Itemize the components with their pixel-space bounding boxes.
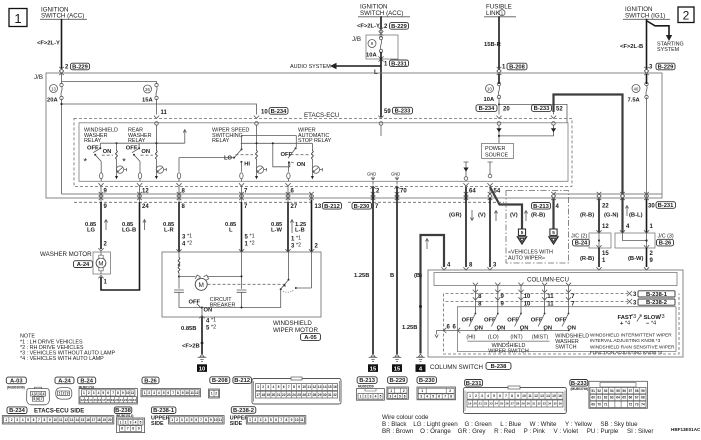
svg-text:29: 29 [318,393,322,397]
svg-text:<F>2L-Y: <F>2L-Y [357,24,380,30]
wire 0.85 L-R pin 8 [178,202,180,252]
pin row 2 labels [104,202,676,210]
svg-text:B-213: B-213 [359,378,376,384]
svg-text:2: 2 [35,392,37,396]
svg-text:*3: *3 [631,314,636,320]
svg-text:B-238-1: B-238-1 [153,408,175,414]
svg-text:AUDIO SYSTEM: AUDIO SYSTEM [290,64,331,70]
vehicles with auto wiper dash-dot box [506,191,569,264]
svg-text:10: 10 [524,294,531,300]
svg-text:66: 66 [629,396,633,400]
connector B-238 [114,407,144,433]
wire from ignition ACC middle [380,16,382,29]
svg-text:7: 7 [112,391,114,395]
fuse 40 [628,74,649,198]
svg-text:27: 27 [291,204,298,210]
svg-text:1: 1 [245,242,249,248]
svg-text:(B-W): (B-W) [628,256,644,262]
svg-text:11: 11 [547,301,554,307]
svg-text:ETACS-ECU: ETACS-ECU [304,112,339,119]
ETACS-ECU dashed box [74,112,572,186]
svg-text:19: 19 [111,398,115,402]
svg-text:L-B: L-B [295,228,305,234]
svg-text:20: 20 [503,106,510,112]
svg-text:9: 9 [298,385,300,389]
svg-text:B-234: B-234 [479,106,496,112]
svg-text:2: 2 [148,391,150,395]
svg-text:11: 11 [219,418,223,422]
svg-text:15: 15 [81,418,85,422]
svg-text:5: 5 [102,391,104,395]
svg-text:4: 4 [22,418,24,422]
svg-text:5: 5 [432,395,434,399]
page ref box 2 [678,7,694,23]
svg-text:24: 24 [292,393,296,397]
svg-text:16: 16 [558,394,562,398]
svg-text:Wire colour code: Wire colour code [382,414,429,421]
J/C(2) out pin 15 R-B [598,248,600,267]
ground 15 [369,354,378,361]
svg-text:5: 5 [493,394,495,398]
svg-text:HBF13E01AC: HBF13E01AC [671,427,701,432]
svg-text:7: 7 [280,418,282,422]
svg-text:B-233: B-233 [534,106,551,112]
svg-text:10: 10 [295,418,299,422]
connector 3 B-229 [649,63,675,70]
svg-text:WINDSHIELD: WINDSHIELD [273,320,312,327]
ETACS output 54 [488,162,493,178]
svg-text:5: 5 [278,385,280,389]
svg-text:2: 2 [104,242,108,248]
svg-text:70: 70 [400,189,407,195]
svg-text:15B-R: 15B-R [484,42,502,48]
svg-text:OFF: OFF [462,317,474,323]
svg-text:16: 16 [86,418,90,422]
svg-text:(R-B): (R-B) [580,256,594,262]
svg-text:6: 6 [107,391,109,395]
svg-text:B-229: B-229 [391,24,408,30]
svg-text:4: 4 [394,394,396,398]
inner bus line A [62,194,662,202]
svg-text:10: 10 [302,385,306,389]
svg-text:19: 19 [468,402,472,406]
svg-text:SWITCH (IG1): SWITCH (IG1) [625,13,665,20]
wire 1.25 L-B pin 13 [311,200,313,252]
wire V pin 54 to column ecu 3 [489,198,491,267]
svg-text:6: 6 [447,325,451,331]
svg-text:2: 2 [403,389,405,393]
J/C(3) out pin 2 B-W [646,248,648,267]
svg-text:9: 9 [291,418,293,422]
svg-text:9: 9 [104,204,108,210]
motor coil [178,258,180,266]
svg-text:1: 1 [104,280,108,286]
svg-text:53: 53 [604,389,608,393]
svg-text:B-213: B-213 [533,204,550,210]
wiper motor entries [176,249,181,252]
svg-text:12: 12 [64,418,68,422]
svg-text:3: 3 [39,392,41,396]
wire GR pin 64 to column ecu 8 [465,187,467,267]
connector B-234 20 [476,105,510,113]
svg-text:15: 15 [552,394,556,398]
svg-text:A-24: A-24 [77,262,90,268]
svg-text:12: 12 [80,398,84,402]
svg-text:1: 1 [360,395,362,399]
svg-text:13: 13 [540,394,544,398]
svg-text:A-24: A-24 [58,378,71,384]
svg-text:15A: 15A [142,98,153,104]
svg-text:4: 4 [182,242,186,248]
circuit breaker [189,297,236,317]
svg-text:B-208: B-208 [509,65,526,71]
svg-text:20: 20 [108,418,112,422]
svg-text:14: 14 [323,385,327,389]
svg-text:26: 26 [145,87,150,92]
svg-text:8: 8 [177,391,179,395]
svg-text:3: 3 [493,263,497,269]
svg-text:10: 10 [522,394,526,398]
svg-text:13: 13 [315,204,322,210]
wire B from column ecu pin4 to ground 4 [421,235,445,354]
svg-text:23: 23 [489,402,493,406]
svg-text:3: 3 [260,418,262,422]
svg-text:23: 23 [287,393,291,397]
svg-text:3: 3 [481,394,483,398]
ETACS internal grounds GND [367,172,376,185]
connector B-229 [387,377,409,400]
svg-text:10: 10 [261,109,268,115]
svg-text:9: 9 [138,427,140,431]
svg-text:SIDE: SIDE [230,421,243,427]
svg-text:16: 16 [98,398,102,402]
svg-text:15: 15 [370,366,377,372]
wiper switch position bracket [467,341,549,344]
svg-text:7: 7 [444,395,446,399]
wiper switch solid box [458,307,677,352]
svg-text:11: 11 [161,110,168,116]
connector 2 B-229 middle [384,23,409,30]
svg-text:B-229: B-229 [390,378,407,384]
svg-text:*2: *2 [296,243,301,249]
svg-text:HI: HI [244,162,250,168]
svg-text:10: 10 [487,86,492,91]
wire fuse 26 down pin 11 [156,99,158,115]
svg-text:(V): (V) [478,213,486,219]
svg-text:32: 32 [333,393,337,397]
svg-text:26: 26 [302,393,306,397]
svg-text:*1: *1 [211,318,216,324]
connector B-234 [2,407,114,424]
svg-text:1: 1 [291,237,295,243]
connector A-24 [55,377,74,399]
svg-text:*2: *2 [211,325,216,331]
svg-text:OFF: OFF [531,317,543,323]
svg-text:B-231: B-231 [466,381,483,387]
svg-text:35: 35 [553,402,557,406]
ignition switch (ACC) header middle [358,4,410,18]
svg-text:18: 18 [106,398,110,402]
svg-text:1: 1 [249,418,251,422]
svg-text:10: 10 [54,418,58,422]
svg-text:3: 3 [93,391,95,395]
svg-text:WINDSHIELD RAIN SENSITIVE WIPE: WINDSHIELD RAIN SENSITIVE WIPER [590,344,675,349]
svg-text:12: 12 [142,189,149,195]
svg-text:J/C (2): J/C (2) [571,234,587,240]
fusible link header [484,4,516,18]
connector A-03 [6,377,49,405]
svg-text:31: 31 [328,393,332,397]
svg-text:13: 13 [85,398,89,402]
column switch contact washer [555,286,576,332]
svg-text:3: 3 [267,385,269,389]
svg-text:17: 17 [256,393,260,397]
svg-text:55: 55 [616,389,620,393]
svg-text:4: 4 [206,319,210,325]
thick feed to pin 52: from J/C(3) [554,95,623,195]
ignition switch (IG1) header [623,6,670,20]
svg-text:1.25B: 1.25B [402,325,417,331]
svg-text:6: 6 [167,391,169,395]
svg-text:(MIST): (MIST) [532,334,549,340]
washer motor [40,251,111,274]
svg-text:*4 : VEHICLES WITH AUTO LAMP: *4 : VEHICLES WITH AUTO LAMP [20,356,104,362]
svg-text:57: 57 [629,389,633,393]
svg-text:(INT): (INT) [510,334,522,340]
svg-text:B: B [390,273,394,279]
windshield washer relay [84,128,127,182]
svg-text:25: 25 [500,402,504,406]
svg-text:ON: ON [297,162,306,168]
svg-text:SOURCE: SOURCE [485,152,508,158]
switch dashed box [444,294,680,355]
svg-text:4: 4 [98,391,100,395]
svg-text:B-229: B-229 [658,65,675,71]
svg-text:6: 6 [121,427,123,431]
connector B-233 [570,380,648,409]
svg-text:11: 11 [547,294,554,300]
svg-text:12: 12 [195,391,199,395]
svg-text:POWER: POWER [485,146,505,152]
svg-text:2: 2 [65,65,69,71]
svg-text:14: 14 [546,394,550,398]
connector B-212 [233,377,341,404]
interval adjusting knob [618,314,665,327]
wire 30 B-231 to J/C(3) [646,199,648,233]
starting system branch [647,21,684,53]
svg-text:GND: GND [367,172,376,177]
svg-text:14: 14 [89,398,93,402]
svg-text:14: 14 [75,418,79,422]
svg-text:*: * [122,157,126,167]
svg-text:9: 9 [49,418,51,422]
svg-text:25: 25 [297,393,301,397]
svg-text:WINDSHIELD INTERMITTENT WIPER: WINDSHIELD INTERMITTENT WIPER [590,332,672,337]
svg-text:(B-L): (B-L) [629,213,643,219]
rear washer relay [122,128,166,182]
connector 1 B-208 [502,63,527,70]
svg-text:24: 24 [132,398,136,402]
svg-text:22: 22 [124,398,128,402]
svg-text:1: 1 [650,224,654,230]
svg-text:*4: *4 [651,321,656,327]
svg-text:SWITCH (ACC): SWITCH (ACC) [360,10,403,17]
svg-text:17: 17 [102,398,106,402]
svg-text:3: 3 [633,292,637,298]
svg-text:15: 15 [93,398,97,402]
svg-text:−: − [646,321,650,327]
svg-text:2: 2 [215,392,217,396]
svg-text:M: M [198,282,203,289]
wiper speed switching relay [177,128,312,182]
svg-text:6: 6 [438,395,440,399]
svg-text:3: 3 [649,65,653,71]
svg-text:1: 1 [469,394,471,398]
svg-text:3: 3 [390,394,392,398]
svg-text:10: 10 [126,391,130,395]
connector 2 B-229 [65,63,90,70]
svg-text:4: 4 [626,224,630,230]
svg-text:BR : Brown O : Orange GR: BR : Brown O : Orange GR : Grey R : Red … [382,428,653,435]
svg-text:1: 1 [211,392,213,396]
svg-text:67: 67 [635,396,639,400]
svg-text:7: 7 [505,394,507,398]
svg-text:L-W: L-W [271,228,282,234]
svg-text:1: 1 [14,11,21,26]
svg-text:2: 2 [125,420,127,424]
svg-text:ON: ON [141,149,150,155]
svg-text:60: 60 [591,396,595,400]
svg-text:WIPER SWITCH: WIPER SWITCH [488,348,529,354]
svg-text:8: 8 [478,294,482,300]
svg-text:7: 7 [172,391,174,395]
svg-text:59: 59 [641,389,645,393]
svg-text:(MU803749): (MU803749) [571,387,589,391]
audio system arrow [290,63,381,76]
svg-text:2: 2 [262,385,264,389]
svg-text:ETACS-ECU SIDE: ETACS-ECU SIDE [34,409,84,415]
svg-text:LG: LG [87,228,96,234]
svg-text:7: 7 [571,294,575,300]
svg-text:*1: *1 [296,236,301,242]
svg-text:26: 26 [505,402,509,406]
wire below B-231 with audio branch [380,52,382,117]
connector B-213 [356,377,384,400]
svg-text:*3: *3 [660,314,665,320]
svg-text:1: 1 [602,258,606,264]
svg-text:3: 3 [370,395,372,399]
svg-text:LINK: LINK [486,10,501,17]
ground 10 [198,354,207,361]
svg-text:7: 7 [288,385,290,389]
svg-text:5: 5 [163,391,165,395]
svg-text:34: 34 [548,402,552,406]
wire 0.85 L-W pin 27 [287,202,289,252]
svg-text:5: 5 [33,397,35,401]
svg-text:INTERVAL ADJUSTING KNOB *3: INTERVAL ADJUSTING KNOB *3 [590,338,661,343]
svg-text:63: 63 [610,396,614,400]
page ref box 1 [9,9,27,27]
svg-text:6: 6 [404,394,406,398]
fuse 9 [366,30,383,59]
svg-text:B-231: B-231 [658,203,675,209]
svg-text:19: 19 [103,418,107,422]
column switch contact (MIST) [531,286,555,341]
fuse 13 output bus to pin 10 [62,99,257,194]
svg-text:61: 61 [598,396,602,400]
svg-text:59: 59 [384,109,391,115]
wire 1.25B pin2 to ground 15 [372,187,374,354]
svg-text:52: 52 [598,389,602,393]
svg-text:8: 8 [44,418,46,422]
svg-text:B-208: B-208 [212,378,229,384]
connector B-230 [417,377,456,400]
svg-text:10A: 10A [366,53,377,59]
svg-text:65: 65 [622,396,626,400]
svg-text:*: * [283,283,286,292]
svg-text:1: 1 [120,420,122,424]
svg-text:19: 19 [266,393,270,397]
svg-text:15: 15 [394,366,401,372]
svg-text:13: 13 [51,86,56,91]
svg-text:2: 2 [683,8,690,22]
relay feed bus from fuse 26 pin 11 [100,125,256,151]
wire from IG1 [646,19,648,70]
svg-text:13: 13 [318,385,322,389]
svg-text:4: 4 [487,394,489,398]
svg-text:7: 7 [127,427,129,431]
svg-text:RELAY: RELAY [84,138,102,144]
svg-text:SWITCH (ACC): SWITCH (ACC) [41,13,84,20]
svg-text:3: 3 [291,244,295,250]
svg-text:B-230: B-230 [419,378,435,384]
svg-text:OFF: OFF [507,317,519,323]
wire 0.85 LG pin 9 [100,202,102,249]
svg-text:7: 7 [38,418,40,422]
svg-text:4: 4 [43,392,45,396]
svg-text:4: 4 [158,391,160,395]
svg-text:*2: *2 [187,241,192,247]
svg-text:B-26: B-26 [144,378,157,384]
svg-text:71: 71 [604,403,608,407]
svg-text:7: 7 [200,418,202,422]
svg-text:64: 64 [616,396,620,400]
svg-text:J/C (3): J/C (3) [658,234,674,240]
shield ground R-B [552,199,554,229]
svg-text:7: 7 [375,204,379,210]
svg-text:5: 5 [27,418,29,422]
svg-text:8: 8 [293,385,295,389]
svg-text:12: 12 [602,224,609,230]
svg-text:(G-N): (G-N) [604,213,619,219]
svg-text:8: 8 [117,391,119,395]
svg-text:7: 7 [244,204,248,210]
svg-text:11: 11 [528,394,532,398]
svg-text:GND: GND [391,172,400,177]
svg-text:6: 6 [283,385,285,389]
svg-text:11: 11 [131,391,135,395]
svg-text:1: 1 [384,61,388,67]
svg-text:STOP RELAY: STOP RELAY [298,138,332,144]
power source box [482,144,514,159]
svg-text:10: 10 [186,391,190,395]
svg-text:52: 52 [556,106,563,112]
svg-text:A-03: A-03 [10,378,23,384]
X crossings at J/B bottom [99,192,104,200]
svg-text:9: 9 [501,294,505,300]
svg-text:OFF: OFF [189,300,201,306]
svg-text:74: 74 [641,403,645,407]
